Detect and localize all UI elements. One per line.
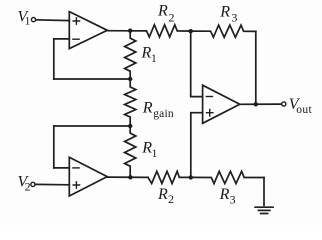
wire V1 to U1 + input (36, 19, 70, 22)
wire U1 inverting input (54, 38, 70, 40)
svg-text:3: 3 (231, 11, 237, 25)
wire U1 output (107, 30, 146, 32)
svg-text:3: 3 (230, 192, 236, 206)
svg-text:R: R (219, 186, 230, 203)
op-amp U1 (69, 12, 107, 49)
svg-text:2: 2 (168, 192, 174, 206)
ground (255, 207, 273, 213)
node B (Rgain/R1 junction) (128, 124, 132, 128)
resistor R3 top (191, 3, 256, 37)
resistor R1 bottom (125, 126, 158, 177)
wire U2 inverting input (54, 167, 70, 169)
resistor R2 top (147, 2, 191, 37)
svg-text:1: 1 (25, 16, 31, 28)
node U1 output junction (128, 29, 132, 33)
svg-text:2: 2 (169, 11, 175, 25)
node U3 output junction (254, 102, 258, 106)
node A (R1/Rgain junction) (128, 77, 132, 81)
wire U2 output (107, 176, 148, 178)
svg-text:R: R (141, 139, 152, 156)
node U2 output junction (128, 175, 132, 179)
terminal Vout (282, 96, 313, 116)
wire U3 inverting input from top node (191, 31, 203, 96)
wire top R3 to U3 output (feedback) (255, 31, 257, 104)
wire U3 output (240, 103, 282, 105)
wire U1 feedback horizontal to node A (54, 78, 130, 80)
svg-text:1: 1 (151, 53, 157, 65)
svg-text:2: 2 (25, 180, 31, 194)
svg-text:gain: gain (153, 108, 174, 120)
svg-text:R: R (157, 2, 168, 19)
wire V2 to U2 + input (35, 183, 69, 185)
resistor R3 bottom (191, 171, 264, 206)
svg-text:R: R (219, 3, 230, 20)
wire U1 feedback vertical (53, 39, 55, 79)
terminal V2 (18, 174, 36, 194)
op-amp U3 (203, 85, 240, 123)
wire bottom R3 to ground (263, 178, 265, 206)
svg-text:1: 1 (152, 148, 158, 160)
svg-text:out: out (296, 104, 312, 116)
node top R2/R3 junction (189, 29, 193, 33)
wire U2 feedback vertical (53, 126, 55, 168)
resistor R2 bottom (148, 171, 191, 206)
op-amp U2 (69, 157, 107, 196)
svg-text:R: R (142, 99, 153, 116)
terminal V1 (18, 9, 36, 28)
resistor R1 top (125, 31, 157, 79)
resistor Rgain (125, 79, 174, 126)
wire U3 non-inverting input from bottom node (191, 113, 203, 178)
svg-text:R: R (157, 186, 168, 203)
node bottom R2/R3 junction (189, 175, 193, 179)
svg-text:R: R (141, 44, 152, 61)
wire U2 feedback horizontal from node B (54, 125, 130, 127)
